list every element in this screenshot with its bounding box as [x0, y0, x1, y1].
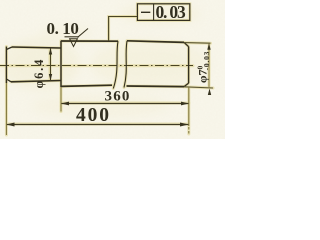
right extension dashes: [188, 127, 190, 134]
phi6.4 text: [32, 58, 46, 89]
main section top edge (right of break): [127, 41, 184, 43]
scan noise overlay: [0, 0, 225, 139]
right bottom chamfer: [184, 83, 189, 86]
left end face: [5, 47, 7, 84]
halo layer (scan yellow bleed around strokes): [0, 4, 213, 135]
break line right (wavy): [124, 41, 127, 88]
straightness symbol: [141, 11, 150, 13]
surface mark triangle: [70, 39, 78, 47]
right end face: [188, 47, 190, 84]
paper mottling: [0, 4, 210, 118]
feature control frame box: [137, 4, 189, 21]
left extension line: [5, 83, 7, 135]
dim 360 line: [61, 103, 189, 105]
dim 400 right arrow: [180, 123, 189, 127]
paper background: [0, 0, 225, 139]
right extension line: [188, 87, 190, 126]
phi6.4 bottom arrow: [49, 74, 52, 81]
extension line below step: [60, 87, 62, 112]
feature control frame divider: [153, 4, 155, 21]
leader line to tolerance frame: [109, 17, 138, 42]
dim 400 line: [6, 124, 188, 126]
phi7 dimension line: [208, 43, 210, 88]
left bottom chamfer: [6, 79, 11, 82]
centerline (dash-dot axis): [0, 65, 193, 67]
shaft left small section bottom edge: [11, 81, 61, 82]
main section top edge (left of break): [61, 40, 118, 42]
break line left (wavy): [113, 41, 118, 88]
left top chamfer: [6, 47, 12, 50]
main section bottom edge (right of break): [127, 85, 185, 88]
dim 360 right arrow: [181, 102, 189, 106]
surface mark slash: [77, 29, 88, 38]
phi7 top extension line: [184, 42, 211, 45]
right top chamfer: [184, 42, 189, 46]
dim 400 left arrow: [6, 123, 14, 127]
phi7 top arrow: [207, 43, 210, 50]
main section bottom edge (left of break): [61, 85, 112, 86]
phi7 bottom arrow: [208, 89, 211, 96]
phi6.4 dimension line: [50, 48, 52, 81]
shoulder step face at x=61: [60, 41, 62, 87]
surface mark underline: [65, 36, 80, 38]
phi7 bottom extension line: [184, 87, 213, 88]
phi6.4 top arrow: [49, 48, 52, 55]
phi7 tolerance text: [196, 51, 212, 83]
shaft left small section top edge: [12, 47, 61, 48]
dim 360 left arrow: [61, 102, 69, 106]
